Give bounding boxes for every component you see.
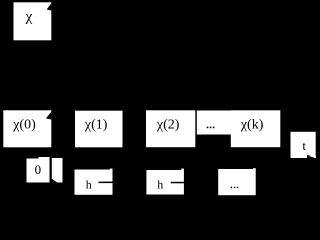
step on top-right of box h2 (181, 169, 184, 171)
svg-text:χ: χ (25, 9, 33, 25)
tab on top of box 0 (39, 157, 50, 159)
fold arrowhead on box chi(0) top-right (46, 112, 52, 120)
svg-text:h: h (157, 178, 163, 192)
box chi (top-left signal box) (14, 2, 52, 40)
box chi(0) (3, 110, 51, 147)
step on top-right of box h1 (110, 169, 113, 171)
box chi(2) (146, 110, 195, 147)
box t (time axis label) (291, 132, 316, 158)
dash after h (second) (171, 182, 184, 184)
flag shape right of box 0 (52, 158, 63, 183)
svg-text:χ(k): χ(k) (240, 118, 264, 133)
notch bite at bottom of box t (307, 155, 310, 158)
ellipsis strip between chi(2) and chi(k) (197, 111, 232, 135)
svg-text:t: t (302, 138, 306, 153)
svg-text:χ(2): χ(2) (156, 118, 180, 133)
box ellipsis (bottom row) (218, 169, 256, 195)
dash after h (first) (98, 182, 112, 184)
box chi(1) (75, 111, 123, 148)
svg-text:h: h (86, 177, 92, 191)
svg-text:0: 0 (35, 162, 42, 177)
box h (first step) (75, 170, 113, 195)
svg-text:χ(0): χ(0) (12, 118, 36, 133)
ellipsis dots (strip) (207, 127, 209, 129)
fold arrowhead on box chi top-right (47, 3, 52, 10)
box 0 (time origin) (27, 159, 50, 183)
staircase wedge at bottom-right of box t (310, 156, 316, 158)
box h (second step) (146, 170, 184, 195)
step on top-right of ellipsis box (253, 168, 256, 170)
box chi(k) (231, 110, 280, 147)
ellipsis dots (bottom) (231, 187, 233, 189)
svg-text:χ(1): χ(1) (84, 118, 108, 133)
